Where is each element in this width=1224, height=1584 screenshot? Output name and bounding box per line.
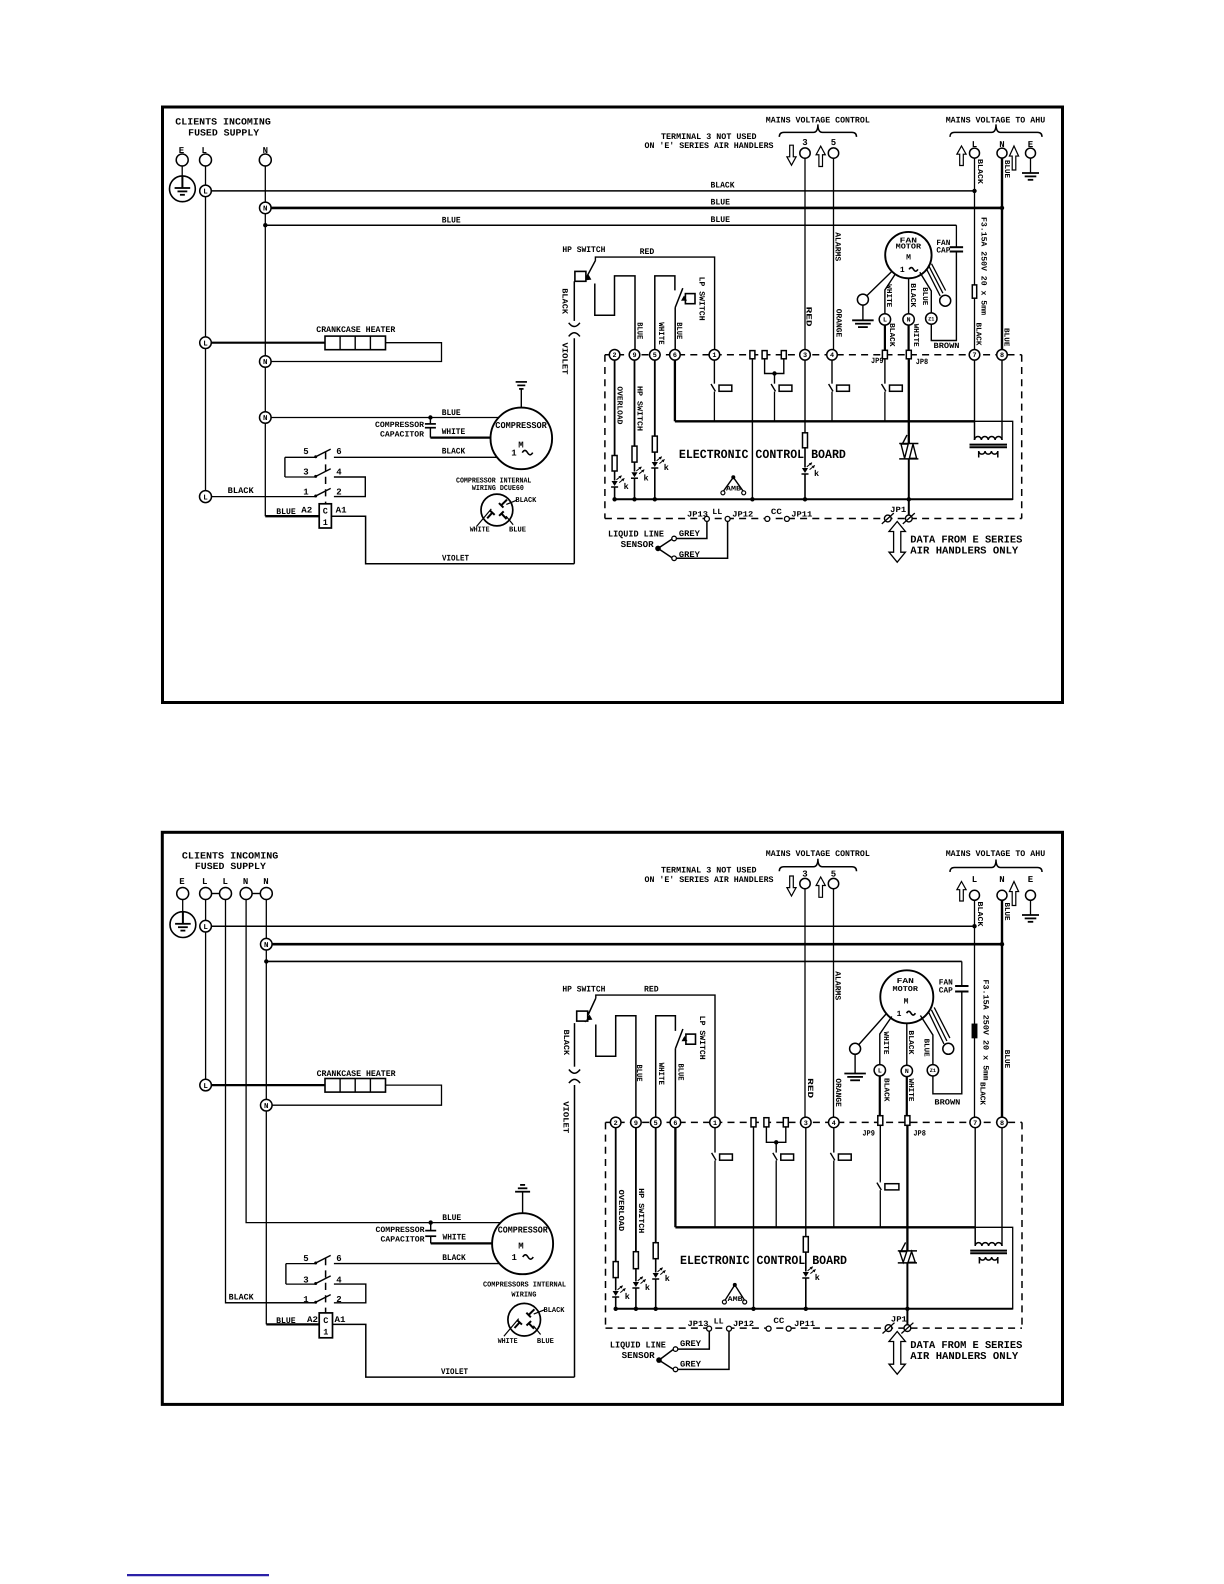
svg-text:LP SWITCH: LP SWITCH [697,1016,706,1060]
svg-text:WHITE: WHITE [911,324,919,347]
fuse F3.15A 2 [972,1024,976,1037]
internal bus 2 [675,1226,975,1228]
data arrow 2 [889,1332,905,1375]
AMB sensor [731,475,735,479]
diagram 2 outer border [162,832,1062,1404]
fan motor terminal Z1 2 [927,1065,938,1076]
board right dashed edge 2 [1021,1122,1023,1328]
svg-text:1: 1 [900,266,905,275]
junction BLACK wire 2 [972,924,976,928]
svg-text:N: N [999,875,1004,885]
svg-text:7: 7 [973,1120,977,1128]
terminal 6 2 [670,1117,681,1128]
wire L fan to JP9 [884,325,886,350]
svg-text:BROWN: BROWN [934,1098,960,1107]
terminal 5 2 [650,1117,661,1128]
svg-text:8: 8 [1000,1120,1004,1128]
triac 2 [898,1250,917,1252]
wire BLUE N to coil A2 [265,515,319,517]
node N tap 2 [261,938,273,950]
leader WHITE [477,509,492,527]
svg-text:VIOLET: VIOLET [559,343,568,375]
wire N fan to JP8 [907,325,909,350]
svg-text:WHITE: WHITE [443,1233,467,1243]
jumper rect 2 2 [764,1118,769,1127]
connector JP13 2 [707,1326,712,1331]
wire triac to JP1 [908,459,910,519]
svg-text:RED: RED [640,247,655,257]
internal pin BLUE 2 [529,1323,534,1328]
svg-text:9: 9 [632,352,636,360]
relay contact JP9 2 [879,1181,881,1184]
svg-text:BLUE: BLUE [1002,160,1010,178]
fan motor M1 [885,232,931,278]
svg-text:L: L [203,924,208,932]
terminal 5 riser and link 2 [656,1016,676,1117]
svg-text:4: 4 [832,1120,836,1128]
wire N AHU down BLUE 2 [1001,900,1003,1117]
board left dashed edge 2 [605,1122,607,1328]
svg-text:COMPRESSORS INTERNAL: COMPRESSORS INTERNAL [483,1281,566,1290]
svg-text:JP9: JP9 [862,1129,875,1138]
fan cable three lines 2 [929,1012,944,1044]
svg-text:1: 1 [511,1253,517,1263]
wire contact 6 to compressor BLACK [334,456,497,458]
triac [899,443,918,445]
svg-text:N: N [243,877,248,887]
svg-text:E: E [179,877,185,887]
resistor 5 [652,436,657,452]
relay contact 1 [713,382,715,385]
svg-text:k: k [814,469,819,479]
svg-text:3: 3 [802,138,807,148]
svg-text:N: N [263,877,268,887]
wire L AHU down BLACK 2 [974,900,976,1024]
L heater circle [200,337,212,349]
svg-text:CAPACITOR: CAPACITOR [380,430,424,439]
svg-text:BLUE: BLUE [442,215,461,225]
bottom rail 2 [616,1308,1013,1310]
earth symbol AHU 2 [1022,914,1039,916]
svg-text:BLACK: BLACK [977,1082,986,1105]
svg-text:COMPRESSOR: COMPRESSOR [376,1226,425,1235]
arrow up at terminal 5 2 [816,877,825,897]
JP9 jumper [882,350,887,359]
svg-text:GREY: GREY [679,550,701,560]
HP switch contact 2 [585,998,596,1022]
svg-text:WHITE: WHITE [656,1063,665,1086]
svg-text:BLUE: BLUE [1002,328,1010,347]
svg-text:k: k [815,1273,820,1283]
fan motor terminal N [903,314,914,325]
terminal L AHU 2 [970,890,980,900]
JP9 jumper 2 [878,1116,883,1126]
wire L2 vertical [226,900,315,1303]
wire L1 vertical [205,900,207,1080]
svg-text:HP SWITCH: HP SWITCH [636,1188,645,1233]
svg-text:M: M [906,254,911,263]
internal pin WHITE [487,513,492,519]
contactor coil C1 [319,504,331,528]
svg-text:BLUE: BLUE [442,408,461,418]
LED hp switch [631,472,637,477]
svg-text:AMB: AMB [728,1296,744,1304]
svg-text:BLACK: BLACK [975,902,984,928]
relay contact CC [774,382,776,385]
protective earth symbol 2 [170,912,196,938]
wire terminal 9 chain 2 [635,1128,637,1252]
JP8 jumper 2 [905,1116,910,1126]
svg-text:5: 5 [653,352,657,360]
wire terminal 5 to board 2 [833,889,835,1117]
board right dashed edge [1021,355,1023,519]
LED 3 2 [803,1272,809,1277]
fan motor earth terminal circle [857,294,868,305]
connector JP12 [725,516,730,521]
svg-text:A1: A1 [336,506,347,516]
resistor hp switch [632,446,637,462]
LED 3 [802,468,808,473]
terminal 5 riser and link [655,276,675,350]
svg-text:L: L [203,494,208,502]
liquid line sensor wires 2 [678,1331,710,1349]
svg-text:JP9: JP9 [871,357,884,366]
svg-text:ALARMS: ALARMS [832,971,841,1000]
svg-text:ON 'E' SERIES AIR HANDLERS: ON 'E' SERIES AIR HANDLERS [645,875,774,885]
wire fan cap to Z1 2 [933,992,962,1094]
svg-text:E: E [1028,875,1034,885]
footer link underline [127,1574,269,1576]
fan BLUE lead 2 [920,1016,933,1065]
wire terminal 6 riser [674,308,676,350]
resistor 3 2 [803,1237,808,1253]
resistor overload [612,456,617,472]
svg-text:COMPRESSOR: COMPRESSOR [495,421,547,431]
terminal 5 circle 2 [828,878,838,888]
wire N vertical [264,166,266,516]
fan motor terminal L 2 [874,1065,885,1076]
svg-text:BLUE: BLUE [1002,903,1010,921]
liquid line sensor wires [676,521,707,538]
svg-text:1: 1 [303,487,309,497]
wire L fan to JP9 2 [879,1076,881,1116]
liquid line sensor 2 [656,1357,662,1363]
relay contact 4 [831,382,833,385]
terminal 3 circle 2 [800,878,810,888]
wire WHITE to compressor 2 [431,1242,493,1244]
svg-text:M: M [518,441,523,451]
svg-text:1: 1 [712,352,716,360]
svg-text:L: L [203,1083,208,1091]
link contact5-contact3 left 2 [285,1264,287,1285]
svg-text:BLACK: BLACK [906,1030,915,1055]
terminal E [176,154,188,166]
wire BLACK below HP switch 2 [574,1023,576,1067]
relay contact 1 2 [714,1151,716,1154]
svg-text:BROWN: BROWN [934,342,960,351]
svg-text:C: C [323,1316,328,1326]
wire terminal 8 to transformer [1001,360,1003,440]
svg-text:ORANGE: ORANGE [833,309,842,338]
fan motor terminal Z1 [926,313,937,324]
terminal N AHU 2 [997,890,1007,900]
svg-text:WHITE: WHITE [906,1079,914,1102]
node L tap 2 [200,920,212,932]
svg-text:L: L [203,189,208,197]
wire N AHU down BLUE [1001,158,1003,349]
internal pin BLACK 2 [529,1309,535,1315]
svg-text:BLUE: BLUE [920,287,928,305]
cable pass-through symbol 2 [569,1070,580,1074]
svg-text:6: 6 [336,447,341,457]
fan BLACK lead 2 [906,1023,908,1065]
svg-text:CAPACITOR: CAPACITOR [381,1235,425,1244]
svg-text:JP13: JP13 [688,1320,709,1329]
terminal 8 [997,350,1008,361]
connector JP11 2 [786,1326,791,1331]
contactor contact 3-4 [285,476,315,478]
fan motor M1 2 [880,970,933,1023]
wire BLUE to fan cap 2 [961,961,963,985]
svg-text:3: 3 [303,468,308,478]
wire terminal 1 to contact 2 [714,1128,716,1152]
node N tap [260,202,272,214]
wire JP8 to triac 2 [906,1125,908,1251]
svg-text:LP SWITCH: LP SWITCH [697,277,706,321]
wire terminal 3 chain [804,360,806,433]
svg-text:BLUE: BLUE [711,215,731,225]
svg-text:N: N [264,1103,269,1111]
svg-text:BLACK: BLACK [228,486,255,496]
svg-text:BLUE: BLUE [509,527,526,535]
svg-text:AMB: AMB [726,486,742,494]
wire BLUE lower 2 [266,960,962,962]
wire JP8 to triac [908,359,910,444]
compressor earth 2 [522,1192,524,1213]
contactor contact 3-4 2 [286,1283,315,1285]
svg-text:MAINS VOLTAGE TO AHU: MAINS VOLTAGE TO AHU [946,115,1045,125]
svg-text:ELECTRONIC CONTROL BOARD: ELECTRONIC CONTROL BOARD [680,1254,847,1268]
svg-text:BLACK: BLACK [711,181,736,191]
fan motor earth lead [867,271,892,296]
resistor 3 [803,433,808,448]
fan BLUE lead [920,272,932,313]
svg-text:WIRING: WIRING [511,1291,536,1300]
svg-text:WHITE: WHITE [470,527,490,535]
compressor motor M1 [491,408,553,470]
svg-text:N: N [263,359,268,367]
arrow up to N AHU [1009,146,1018,170]
wire BLACK below HP switch [573,281,575,321]
wire terminal 4 to contact 2 [833,1128,835,1152]
resistor overload 2 [613,1262,618,1278]
svg-text:RED: RED [805,1078,814,1098]
terminal 2 2 [610,1117,621,1128]
svg-text:k: k [665,1274,670,1284]
svg-text:N: N [905,1068,909,1075]
svg-text:N: N [264,942,269,950]
leader BLUE [506,516,513,525]
svg-text:7: 7 [972,352,976,360]
board loop wire right [909,421,1013,499]
connector CC 2 [766,1326,771,1331]
terminal L AHU [970,148,980,158]
wire WHITE to compressor [430,436,490,438]
crankcase heater element [325,336,386,350]
contactor contact 1-2 2 [226,1302,316,1304]
svg-text:BLACK: BLACK [561,1030,570,1056]
terminal L1 [200,888,212,900]
arrow up at terminal 5 [816,146,825,166]
svg-text:BLACK: BLACK [559,288,568,314]
svg-text:MAINS VOLTAGE CONTROL: MAINS VOLTAGE CONTROL [766,849,870,859]
arrow up to N AHU 2 [1009,882,1018,906]
terminal 3 circle [800,148,810,158]
svg-text:BLACK: BLACK [908,283,917,308]
svg-text:L: L [883,317,887,324]
svg-text:BLUE: BLUE [674,322,683,339]
jumper bracket 2 [766,1126,785,1142]
terminal 5 [650,350,661,361]
connector JP1 left [884,515,891,522]
wire BLUE to compressor [265,417,498,419]
connector JP11 [784,516,789,521]
fan earth 2 [854,1054,856,1073]
wire L to crankcase heater [211,342,325,344]
wire E AHU to earth 2 [1030,900,1032,915]
wire VIOLET down 2 [574,1085,576,1377]
leader WHITE 2 [504,1319,519,1337]
svg-text:5: 5 [303,1254,308,1264]
svg-text:LL: LL [714,1318,724,1327]
wire terminal 3 chain 2 [805,1128,807,1237]
transformer primary leg left [974,421,976,440]
HP switch bypass link 2 [596,1016,636,1117]
junction capacitor tap [428,415,432,419]
wire BLUE N2 to coil A2 2 [266,1323,319,1325]
svg-text:3: 3 [803,352,807,360]
wire terminal 5 chain [654,360,656,436]
svg-text:BLUE: BLUE [922,1039,930,1057]
fan motor terminal L [879,314,890,325]
wire terminal 3 to board RED [804,158,806,349]
svg-text:1: 1 [897,1010,902,1019]
wire terminal 8 to transformer 2 [1001,1128,1003,1246]
leader BLACK 2 [534,1310,545,1314]
contactor contact 5-6 [285,456,315,458]
svg-text:VIOLET: VIOLET [441,1367,468,1377]
link N1-N2 [252,893,260,895]
wire E terminal to earth [181,166,183,176]
svg-text:CLIENTS INCOMING: CLIENTS INCOMING [182,850,279,861]
svg-text:1: 1 [323,1327,328,1337]
svg-text:ALARMS: ALARMS [832,232,841,261]
svg-text:GREY: GREY [679,529,701,539]
svg-text:JP12: JP12 [732,511,753,520]
fuse F3.15A [972,285,976,298]
fan motor terminal N 2 [901,1065,912,1076]
svg-text:A2: A2 [301,506,312,516]
terminal N2 [260,888,272,900]
terminal E AHU [1026,148,1036,158]
data arrow [889,522,905,563]
terminal 4 [827,350,838,361]
svg-text:M: M [904,998,909,1007]
compressor motor M1 2 [492,1213,553,1274]
resistor 5 2 [653,1243,658,1259]
terminal 7 2 [970,1117,981,1128]
svg-text:OVERLOAD: OVERLOAD [616,1190,625,1232]
jumper rect 1 2 [751,1118,756,1127]
wire BLACK from L [211,190,974,192]
brace mains voltage control [779,124,856,136]
terminal E AHU 2 [1026,890,1036,900]
board bottom dashed edge 2 [606,1327,1023,1329]
wire BLUE to fan cap [955,225,957,247]
terminal 3 2 [801,1117,812,1128]
jumper wire to CC 2 [753,1126,755,1309]
svg-text:ELECTRONIC CONTROL BOARD: ELECTRONIC CONTROL BOARD [679,448,846,462]
wire heater return loop 2 [272,1085,441,1105]
wire terminal 3 to board 2 [804,889,806,1117]
wire N1 vertical [246,900,500,1223]
compressor earth [520,389,522,407]
svg-text:BLUE: BLUE [634,1065,643,1082]
leader BLACK [506,500,517,504]
wire terminal 7 to bus [974,360,976,421]
internal bus [675,420,975,422]
svg-text:L: L [878,1068,882,1075]
jumper rect 3 [781,351,786,359]
svg-text:BLUE: BLUE [442,1213,461,1223]
svg-text:F3.15A 250V 20 x 5mm: F3.15A 250V 20 x 5mm [980,979,989,1080]
svg-text:LIQUID LINE: LIQUID LINE [610,1341,667,1351]
fan motor earth lead 2 [859,1014,887,1045]
link contact5-contact3 left [284,457,286,477]
svg-text:LL: LL [712,508,722,517]
wire terminal 5 to board ORANGE [833,158,835,349]
wire E AHU to earth [1030,158,1032,173]
svg-text:BLUE: BLUE [676,1064,685,1081]
wire terminal 2 chain [614,360,616,455]
svg-text:k: k [625,1292,630,1302]
relay contact 4 2 [833,1151,835,1154]
terminal 4 2 [829,1117,840,1128]
transformer [975,437,1003,440]
svg-text:FUSED SUPPLY: FUSED SUPPLY [195,861,266,872]
terminal 9 2 [631,1117,642,1128]
liquid line sensor [655,546,661,552]
HP switch contact [585,260,596,281]
svg-text:1: 1 [511,449,517,459]
svg-text:BLACK: BLACK [887,323,896,347]
svg-text:5: 5 [831,138,836,148]
svg-text:BLACK: BLACK [544,1306,565,1315]
wire terminal 9 chain [634,360,636,446]
svg-text:5: 5 [303,447,308,457]
svg-text:Z1: Z1 [928,316,934,322]
jumper rect 1 [750,351,755,359]
L heater circle 2 [200,1079,212,1091]
contactor contact 5-6 2 [286,1263,315,1265]
fan earth [862,305,864,320]
LED 5 2 [653,1273,659,1278]
node N compressor tap [260,412,272,424]
wire BLUE lower [265,224,956,226]
fan motor earth terminal circle 2 [850,1043,861,1054]
svg-text:BLACK: BLACK [442,447,466,457]
svg-text:RED: RED [803,307,812,327]
